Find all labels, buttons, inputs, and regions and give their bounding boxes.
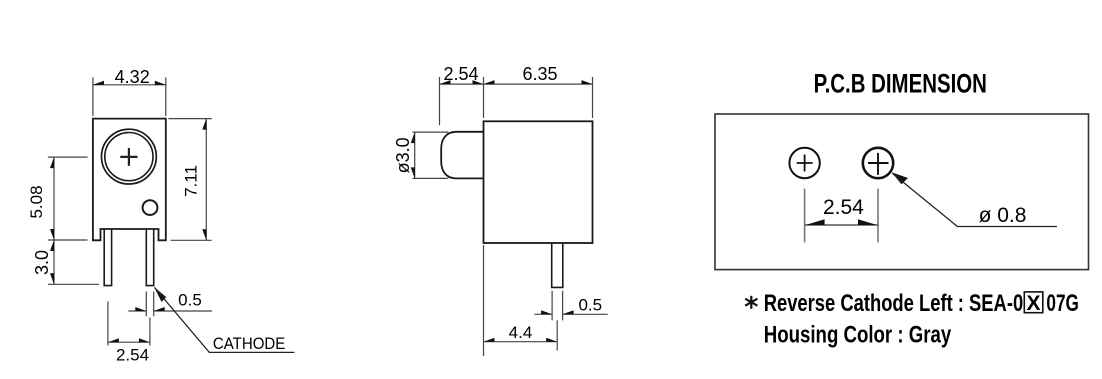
front view: lens center cross	[120, 148, 137, 166]
dimension 7.11: extension lines	[168, 119, 211, 241]
svg-text:07G: 07G	[1046, 290, 1079, 317]
front view: right lead (cathode)	[146, 229, 153, 286]
svg-text:3.0: 3.0	[32, 250, 52, 275]
front view: polarity hole	[143, 200, 158, 215]
note line 1 X box	[1024, 292, 1043, 313]
dimension 0.5 (side): arrowheads	[541, 310, 552, 314]
dimension 6.35 (side): arrowheads	[484, 80, 495, 84]
svg-text:2.54: 2.54	[116, 346, 149, 365]
dimension 2.54 (front): arrowheads	[108, 338, 119, 342]
PCB hole 2 circle	[863, 148, 893, 178]
cathode leader arrowhead	[154, 287, 166, 302]
side view: lead	[552, 243, 563, 287]
svg-text:X: X	[1026, 292, 1040, 315]
dimension 5.08: extension lines	[48, 157, 88, 240]
svg-text:4.4: 4.4	[509, 323, 533, 342]
svg-text:CATHODE: CATHODE	[213, 335, 285, 353]
svg-text:6.35: 6.35	[522, 64, 557, 84]
dimension 3.0: arrowheads	[50, 240, 54, 251]
dimension 4.32: dimension line	[93, 84, 166, 86]
PCB hole 2 cross	[868, 153, 889, 175]
svg-text:2.54: 2.54	[443, 64, 478, 84]
dimension 5.08: arrowheads	[50, 157, 54, 168]
cathode leader line	[155, 288, 295, 353]
svg-text:ø 0.8: ø 0.8	[979, 204, 1027, 227]
dimension 5.08: dimension line	[53, 157, 55, 240]
PCB hole 1 circle	[789, 148, 819, 178]
dimension 0.5 (side): dimension lines	[535, 313, 608, 315]
front view: LED lens outer ring	[101, 129, 156, 184]
dimension diameter 3.0: dimension line	[414, 132, 416, 178]
svg-text:ø3.0: ø3.0	[393, 137, 413, 173]
svg-text:Housing Color : Gray: Housing Color : Gray	[764, 322, 952, 349]
dimension 4.32: extension lines	[93, 78, 166, 117]
dimension 3.0: dimension line	[53, 240, 55, 284]
note asterisk	[745, 296, 757, 309]
side view: LED dome	[441, 132, 483, 179]
dimension 0.5 (front): dimension lines	[128, 310, 212, 312]
dimension 2.54 (side): arrowheads	[440, 80, 451, 84]
front view: LED lens inner ring	[105, 133, 153, 181]
dimension diameter 3.0: arrowheads	[411, 132, 415, 143]
front view: left lead	[104, 229, 111, 286]
PCB hole 1 cross	[797, 155, 813, 172]
svg-text:5.08: 5.08	[27, 185, 46, 218]
dimension 0.5 (front): arrowheads	[135, 307, 146, 311]
dimension 4.32: arrowheads	[93, 81, 104, 85]
svg-text:0.5: 0.5	[178, 291, 202, 310]
svg-text:0.5: 0.5	[578, 295, 602, 314]
dimension 0.5 (front): extension lines	[146, 292, 153, 317]
PCB dimension 2.54: extension lines	[805, 189, 878, 243]
PCB hole leader line	[893, 174, 1058, 227]
PCB hole leader arrowhead	[892, 172, 909, 184]
dimension 2.54 (front): dimension line	[108, 341, 150, 343]
front view: LED housing body outline	[93, 119, 166, 241]
dimension 7.11: arrowheads	[202, 119, 206, 130]
dimension 4.4: arrowheads	[484, 338, 495, 342]
dimension 2.54 / 6.35 (side): dimension line	[440, 83, 593, 85]
dimension 2.54 (side): extension lines	[440, 77, 593, 125]
svg-text:7.11: 7.11	[182, 165, 201, 197]
dimension 3.0: extension line bottom	[48, 283, 99, 285]
dimension 0.5 (side): extension lines	[552, 291, 563, 321]
svg-text:P.C.B DIMENSION: P.C.B DIMENSION	[814, 69, 987, 99]
svg-text:2.54: 2.54	[823, 196, 864, 219]
dimension 7.11: dimension line	[205, 119, 207, 241]
svg-text:4.32: 4.32	[115, 67, 150, 87]
svg-text:Reverse Cathode Left : SEA-0: Reverse Cathode Left : SEA-0	[764, 290, 1024, 317]
PCB dimension 2.54: dimension line	[805, 224, 878, 226]
dimension diameter 3.0: extension lines	[413, 132, 449, 178]
dimension 2.54 (front): extension lines	[108, 302, 150, 346]
PCB dimension 2.54: arrowheads	[806, 219, 825, 225]
dimension 4.4: extension lines	[484, 245, 558, 356]
dimension 4.4: dimension line	[484, 341, 558, 343]
side view: body outline	[484, 121, 593, 243]
PCB board rectangle	[715, 114, 1089, 270]
